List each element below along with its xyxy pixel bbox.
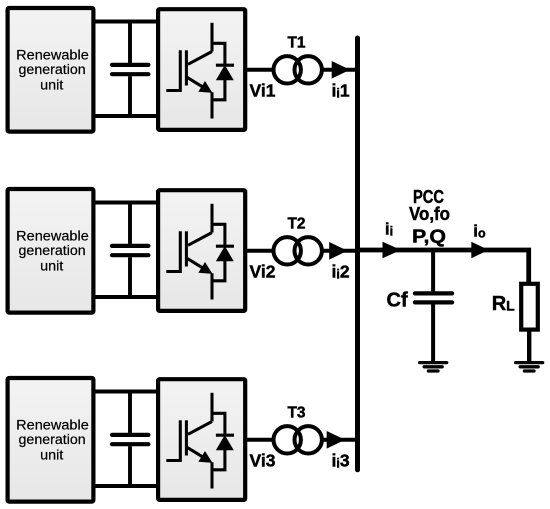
wire: Vi1 (inverter 1 output to T1) xyxy=(245,68,272,72)
svg-text:T3: T3 xyxy=(287,405,305,422)
svg-text:Cf: Cf xyxy=(387,290,408,312)
wire: DC link top (RGU1 to inverter) xyxy=(94,20,159,24)
svg-text:Vi3: Vi3 xyxy=(250,450,276,470)
capacitor Cf xyxy=(415,250,452,361)
svg-text:T2: T2 xyxy=(287,216,305,233)
wire: DC link bottom (RGU1 to inverter) xyxy=(94,114,159,118)
renewable generation unit 1 box xyxy=(8,8,94,132)
inverter 1 box xyxy=(158,9,245,130)
svg-text:Vi1: Vi1 xyxy=(250,80,276,100)
wire: DC link top (RGU2 to inverter) xyxy=(94,201,159,205)
arrow: current io xyxy=(471,242,488,258)
renewable generation unit 3 box xyxy=(8,378,94,502)
wire: Vi3 (inverter 3 output to T3) xyxy=(245,438,272,442)
arrow: current ii2 xyxy=(329,242,347,260)
svg-text:generation: generation xyxy=(19,243,86,258)
wire: PCC output line (bus to load corner) xyxy=(358,250,529,284)
inverter 3 box xyxy=(158,379,245,500)
resistor RL xyxy=(521,284,538,330)
arrow: current ii3 xyxy=(327,431,345,449)
svg-text:ii1: ii1 xyxy=(332,81,350,101)
svg-text:Renewable: Renewable xyxy=(16,47,89,62)
wire: AC bus (vertical) xyxy=(355,38,360,470)
wire: T2 to AC bus xyxy=(322,249,358,253)
wire: T1 to AC bus xyxy=(322,68,358,72)
svg-text:unit: unit xyxy=(40,77,63,92)
IGBT Q2 xyxy=(166,204,212,300)
svg-text:ii3: ii3 xyxy=(332,451,350,471)
wire: DC link bottom (RGU2 to inverter) xyxy=(94,295,159,299)
svg-text:io: io xyxy=(473,222,486,241)
wire: DC link top (RGU3 to inverter) xyxy=(94,390,159,394)
diode D2 (antiparallel) xyxy=(212,224,234,280)
arrow: current ii xyxy=(383,242,402,258)
wire: RL to ground xyxy=(527,330,531,361)
svg-text:T1: T1 xyxy=(287,35,305,52)
inverter 2 box xyxy=(158,190,245,311)
renewable generation unit 2 box xyxy=(8,189,94,313)
svg-text:unit: unit xyxy=(40,258,63,273)
svg-text:Vo,fo: Vo,fo xyxy=(409,204,450,224)
capacitor: DC link C3 xyxy=(112,392,148,487)
ground (Cf branch) xyxy=(420,363,447,371)
svg-text:generation: generation xyxy=(19,432,86,447)
svg-text:unit: unit xyxy=(40,447,63,462)
transformer T2 xyxy=(274,237,322,264)
svg-text:Vi2: Vi2 xyxy=(250,261,276,281)
diode D1 (antiparallel) xyxy=(212,43,234,100)
diode D3 (antiparallel) xyxy=(212,413,234,470)
IGBT Q3 xyxy=(166,393,212,489)
svg-text:ii: ii xyxy=(385,220,393,239)
wire: DC link bottom (RGU3 to inverter) xyxy=(94,484,159,488)
svg-text:P,Q: P,Q xyxy=(412,227,446,247)
ground (RL branch) xyxy=(516,363,543,371)
arrow: current ii1 xyxy=(332,61,350,79)
svg-text:Renewable: Renewable xyxy=(16,228,89,243)
wire: T3 to AC bus xyxy=(322,438,358,442)
IGBT Q1 xyxy=(166,23,212,119)
wire: Vi2 (inverter 2 output to T2) xyxy=(245,249,272,253)
svg-text:ii2: ii2 xyxy=(332,262,350,282)
transformer T1 xyxy=(274,56,322,83)
capacitor: DC link C2 xyxy=(112,203,148,298)
transformer T3 xyxy=(274,426,322,453)
svg-text:Renewable: Renewable xyxy=(16,417,89,432)
svg-text:RL: RL xyxy=(492,293,515,315)
svg-text:generation: generation xyxy=(19,62,86,77)
capacitor: DC link C1 xyxy=(112,22,148,117)
